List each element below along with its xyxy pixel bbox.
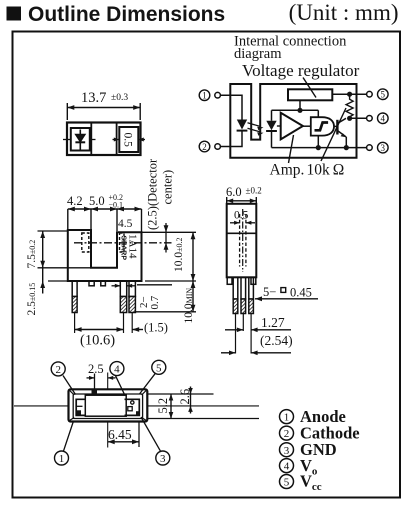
svg-text:2: 2 bbox=[202, 142, 207, 152]
hidden slot dashed lines bbox=[239, 214, 241, 267]
leaders bbox=[63, 374, 161, 451]
schmitt hysteresis symbol bbox=[315, 123, 329, 131]
svg-text:0.7: 0.7 bbox=[149, 295, 161, 309]
svg-text:5.2: 5.2 bbox=[156, 398, 170, 414]
front leads: lead 1 bbox=[72, 281, 135, 313]
svg-text:Vcc: Vcc bbox=[300, 472, 322, 494]
svg-text:5.0: 5.0 bbox=[89, 194, 105, 208]
top view detector window box bbox=[119, 127, 138, 152]
light arrows bbox=[248, 123, 262, 127]
svg-text:1: 1 bbox=[202, 91, 207, 101]
side feet bbox=[227, 277, 232, 284]
side body bbox=[227, 204, 257, 277]
svg-text:1.27: 1.27 bbox=[261, 315, 285, 330]
side centerline bbox=[242, 209, 244, 272]
node dot emitter gnd bbox=[344, 145, 349, 150]
right pads bracket bbox=[125, 399, 140, 415]
pin 3 terminal bbox=[367, 145, 373, 151]
slot bottom extension to left bbox=[38, 267, 92, 269]
svg-text:2: 2 bbox=[55, 364, 61, 376]
transistor base bar bbox=[336, 120, 338, 135]
resistor 10k bbox=[346, 94, 353, 120]
optical axis centerline bbox=[74, 242, 172, 244]
svg-text:3: 3 bbox=[160, 453, 166, 465]
front leads: lead pair bbox=[120, 281, 126, 297]
voltage regulator box bbox=[288, 89, 332, 100]
pin 5 terminal bbox=[367, 91, 373, 97]
svg-text:3: 3 bbox=[284, 445, 290, 457]
top view center slot walls bbox=[90, 123, 92, 156]
5-sq0.45 label and leader bbox=[255, 298, 318, 300]
schmitt top wire bbox=[317, 110, 319, 117]
svg-text:2: 2 bbox=[284, 428, 290, 440]
wire vreg to Vcc rail bbox=[332, 93, 366, 95]
bottom view outer rect bbox=[69, 389, 148, 421]
bottom view inner rect bbox=[73, 394, 142, 419]
gate mark bbox=[92, 389, 98, 394]
detector center (2.5) dim bbox=[142, 223, 197, 253]
svg-text:2.5: 2.5 bbox=[88, 362, 104, 376]
node dot schmitt gnd bbox=[316, 145, 321, 150]
transistor emitter bbox=[337, 131, 346, 137]
7.5 dim line bbox=[42, 231, 44, 294]
vertical centerline bbox=[107, 373, 109, 448]
svg-text:4.5: 4.5 bbox=[118, 218, 133, 230]
10.0 MIN dim bbox=[136, 311, 196, 313]
svg-text:(1.5): (1.5) bbox=[144, 321, 168, 335]
node dot resistor/collector bbox=[347, 116, 352, 121]
2-0.7 rotated text bbox=[138, 295, 161, 309]
top rail bbox=[272, 109, 319, 111]
top view centerline ticks bbox=[63, 139, 96, 141]
standoff stubs bbox=[89, 281, 94, 286]
svg-text:1A14: 1A14 bbox=[127, 234, 139, 259]
svg-text:6.0: 6.0 bbox=[226, 185, 242, 199]
leader to regulator bbox=[303, 78, 316, 98]
1.27 dim bbox=[225, 329, 291, 331]
svg-text:4.2: 4.2 bbox=[67, 194, 83, 208]
wire LED to pin2 bbox=[220, 131, 242, 147]
corner chamfers bbox=[70, 390, 147, 420]
top view emitter window box bbox=[71, 128, 90, 151]
svg-text:5: 5 bbox=[284, 477, 290, 489]
7.5 top extension bbox=[38, 230, 68, 232]
svg-text:5: 5 bbox=[381, 90, 386, 100]
svg-text:10.0MIN.: 10.0MIN. bbox=[183, 286, 195, 324]
(10.6) dim bbox=[75, 329, 124, 331]
svg-text:center): center) bbox=[161, 170, 175, 205]
svg-text:6.45: 6.45 bbox=[108, 427, 132, 442]
circled 5 bbox=[152, 360, 166, 374]
svg-text:1: 1 bbox=[59, 453, 65, 465]
2-0.7 lead width arrows bbox=[112, 285, 173, 286]
photodiode bbox=[271, 110, 273, 121]
top view LED symbol bbox=[75, 130, 85, 150]
svg-text:13.7: 13.7 bbox=[81, 90, 106, 106]
emitter hidden window (dashed) bbox=[82, 233, 89, 252]
top view dim line 13.7 bbox=[67, 103, 140, 120]
svg-text:Amp.: Amp. bbox=[270, 162, 305, 179]
amp input stub bbox=[277, 125, 281, 127]
front body outline bbox=[68, 230, 142, 281]
lead extension lines bbox=[75, 313, 133, 334]
svg-text:(2.5)(Detector: (2.5)(Detector bbox=[146, 158, 160, 230]
title square bullet bbox=[7, 7, 22, 21]
emitter to ground rail bbox=[345, 137, 347, 148]
top view package outline bbox=[67, 123, 141, 156]
LED emitter diode bbox=[237, 120, 247, 130]
svg-text:4: 4 bbox=[381, 114, 386, 124]
svg-text:diagram: diagram bbox=[234, 46, 282, 62]
detector center rotated label bbox=[146, 158, 175, 230]
svg-text:±0.3: ±0.3 bbox=[111, 93, 128, 103]
svg-text:10.0±0.2: 10.0±0.2 bbox=[173, 237, 185, 272]
svg-text:SHARP: SHARP bbox=[119, 236, 126, 261]
circled 1 bbox=[55, 451, 69, 465]
7.5±0.2 rotated text bbox=[26, 240, 38, 316]
horizontal centerline bbox=[14, 405, 259, 407]
node dot vreg feed bbox=[297, 108, 302, 113]
svg-text:0.45: 0.45 bbox=[290, 286, 312, 300]
svg-text:2.5±0.15: 2.5±0.15 bbox=[26, 283, 38, 316]
pin 2 terminal bbox=[199, 141, 210, 152]
top view dim text 13.7±0.3 bbox=[81, 90, 128, 106]
svg-text:2.6: 2.6 bbox=[178, 389, 192, 405]
transistor base wire bbox=[334, 125, 337, 127]
svg-text:3: 3 bbox=[381, 143, 386, 153]
circled 3 bbox=[156, 451, 170, 465]
6.0 dim line bbox=[227, 197, 257, 204]
side lead extensions bbox=[236, 314, 252, 354]
svg-text:5−: 5− bbox=[263, 285, 276, 299]
svg-text:7.5±0.2: 7.5±0.2 bbox=[26, 240, 38, 269]
svg-text:0.5: 0.5 bbox=[122, 133, 134, 148]
wire amp out to schmitt bbox=[303, 125, 311, 127]
10.0±0.2 dim bbox=[145, 280, 196, 282]
head separation line bbox=[227, 232, 257, 234]
amp triangle bbox=[281, 113, 303, 140]
ground rail bbox=[272, 147, 367, 149]
0.5 slot arrows bbox=[230, 222, 255, 224]
pin 4 terminal bbox=[367, 116, 373, 122]
5.2 and 2.6 dims bbox=[147, 394, 259, 419]
pin 1 terminal bbox=[199, 90, 210, 101]
circled 2 bbox=[51, 362, 65, 376]
front top dim line bbox=[68, 209, 142, 232]
internal connection diagram label bbox=[234, 34, 347, 63]
schmitt bottom wire bbox=[317, 136, 319, 148]
node dot Vcc bbox=[347, 92, 352, 97]
schmitt trigger body bbox=[311, 117, 334, 135]
svg-text:(10.6): (10.6) bbox=[80, 333, 115, 349]
detector hidden window (dashed) bbox=[120, 233, 125, 252]
bottom ext for 2.5 bbox=[48, 280, 68, 282]
svg-text:(Unit : mm): (Unit : mm) bbox=[289, 0, 399, 25]
svg-text:±0.2: ±0.2 bbox=[246, 186, 262, 196]
(1.5) dim arrow bbox=[132, 329, 143, 331]
6.45 dim bbox=[138, 422, 140, 448]
svg-text:10kΩ: 10kΩ bbox=[307, 162, 345, 179]
2.54 dim bbox=[221, 352, 291, 354]
svg-text:4: 4 bbox=[114, 364, 120, 376]
svg-text:1: 1 bbox=[284, 412, 290, 424]
top view 0.5 arrows bbox=[113, 139, 146, 141]
wire pin1 to LED bbox=[220, 95, 242, 119]
left pads bracket bbox=[76, 399, 85, 415]
wire vreg down bbox=[299, 100, 301, 110]
transistor collector bbox=[337, 118, 346, 123]
svg-text:Voltage regulator: Voltage regulator bbox=[242, 61, 360, 80]
center cavity bbox=[85, 395, 126, 416]
circled 4 bbox=[110, 362, 124, 376]
circuit outer box with slot bbox=[230, 84, 356, 158]
front dim texts 4.2 / 5.0 +0.2-0.1 bbox=[67, 193, 133, 230]
svg-text:5: 5 bbox=[156, 362, 162, 374]
side leads bbox=[233, 277, 253, 313]
svg-text:4: 4 bbox=[284, 461, 290, 473]
6.0±0.2 text bbox=[226, 185, 262, 222]
wire to pin4 bbox=[348, 117, 367, 119]
svg-text:Outline Dimensions: Outline Dimensions bbox=[28, 3, 225, 26]
svg-text:(2.54): (2.54) bbox=[260, 333, 293, 348]
